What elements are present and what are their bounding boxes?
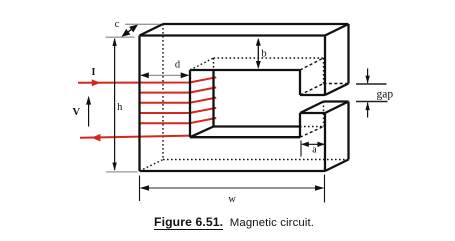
w extension line right	[324, 175, 326, 203]
core hidden back-bottom edge	[163, 159, 349, 161]
voltage arrow V	[86, 96, 91, 127]
window back left edge hidden part	[213, 58, 215, 70]
svg-text:h: h	[117, 102, 123, 113]
label a	[312, 145, 317, 156]
depth edge gap lower-right	[325, 102, 349, 114]
label I	[92, 67, 96, 78]
svg-text:d: d	[175, 59, 181, 70]
gap lower arrow	[365, 102, 369, 117]
label c	[115, 19, 120, 30]
window hidden top-left depth edge	[190, 58, 214, 70]
label w	[228, 194, 236, 205]
window hidden bottom-right depth edge	[300, 127, 324, 138]
gap hidden upper back edge	[324, 83, 349, 85]
window hidden back-top edge	[214, 57, 324, 59]
gap hidden upper-left depth edge	[300, 84, 324, 96]
gap upper tick	[356, 83, 387, 85]
coil turn 4 wire	[140, 108, 217, 113]
dimension a arrow	[301, 142, 325, 147]
svg-text:gap: gap	[377, 89, 394, 101]
dimension d arrow	[140, 72, 189, 78]
core back right edge lower	[347, 102, 349, 160]
core window front outline	[190, 70, 300, 137]
core back top edge	[163, 23, 349, 25]
core back right edge upper	[347, 24, 349, 84]
dimension b arrow	[256, 38, 261, 69]
window back left edge	[212, 70, 214, 127]
dimension h arrow	[112, 38, 116, 171]
svg-text:V: V	[73, 107, 81, 118]
depth edge gap lower-left	[300, 102, 324, 114]
depth edge bottom-right corner	[325, 160, 349, 172]
svg-text:b: b	[261, 48, 266, 59]
window hidden back-bottom edge behind right limb	[300, 126, 324, 128]
label d	[175, 59, 181, 70]
coil turn 5 wire	[140, 118, 217, 123]
label V	[73, 107, 81, 118]
depth edge top-left corner	[140, 24, 164, 36]
gray extension tick h-bottom	[106, 171, 138, 173]
window hidden top-right depth edge	[300, 58, 324, 70]
depth edge gap upper-right	[325, 84, 349, 96]
w extension line left	[139, 176, 141, 202]
window back bottom edge	[214, 125, 301, 127]
core hidden back-left edge	[162, 24, 164, 160]
gap upper arrow	[365, 69, 369, 84]
core hidden bottom-left depth edge	[140, 160, 164, 172]
coil return wire with arrow	[80, 134, 190, 142]
depth edge top-right corner	[325, 24, 349, 36]
dimension w arrow	[140, 185, 324, 190]
coil turn 3 wire	[140, 98, 217, 103]
caption Figure 6.51	[154, 215, 314, 229]
window hidden back-right upper edge	[323, 58, 325, 84]
label gap	[377, 89, 394, 101]
gap lower tick	[356, 101, 388, 103]
svg-text:a: a	[312, 145, 317, 156]
window hidden back-right lower edge	[323, 102, 325, 127]
gray extension tick c-bottom / h-top	[106, 36, 135, 38]
gap front edges	[300, 95, 325, 113]
gap lower back edge	[324, 100, 349, 102]
dimension c arrow	[122, 25, 139, 37]
coil feed wire with current arrow I	[78, 77, 216, 86]
svg-text:w: w	[228, 194, 236, 205]
gray extension tick c-top	[125, 23, 160, 25]
label b	[261, 48, 266, 59]
label h	[117, 102, 123, 113]
coil turn 2 wire	[140, 87, 217, 92]
svg-text:c: c	[115, 19, 120, 30]
window interior bottom-left depth edge	[190, 127, 214, 138]
dimension a tick	[300, 141, 302, 157]
svg-text:I: I	[92, 67, 96, 78]
core front outer outline	[140, 36, 326, 172]
